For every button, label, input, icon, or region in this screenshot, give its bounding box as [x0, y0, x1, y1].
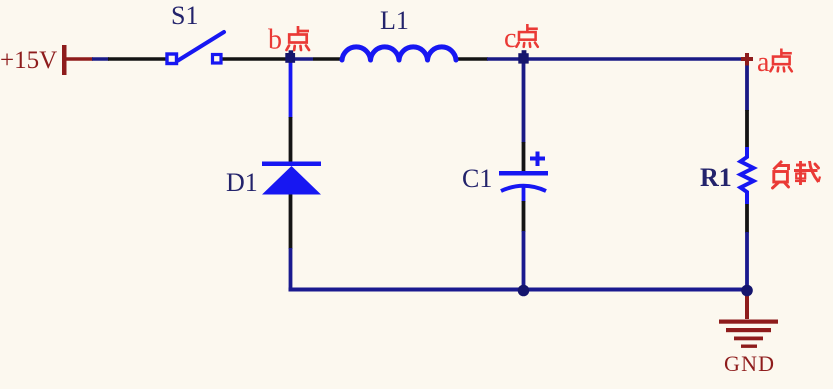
svg-text:C1: C1 — [462, 164, 492, 193]
svg-text:b: b — [268, 25, 282, 56]
svg-text:+15V: +15V — [0, 47, 57, 74]
svg-text:c: c — [504, 23, 516, 54]
svg-text:a: a — [757, 47, 770, 78]
svg-text:R1: R1 — [700, 163, 732, 192]
svg-text:L1: L1 — [380, 6, 409, 35]
svg-text:D1: D1 — [226, 168, 258, 197]
svg-text:S1: S1 — [171, 1, 198, 30]
svg-text:GND: GND — [724, 351, 775, 376]
